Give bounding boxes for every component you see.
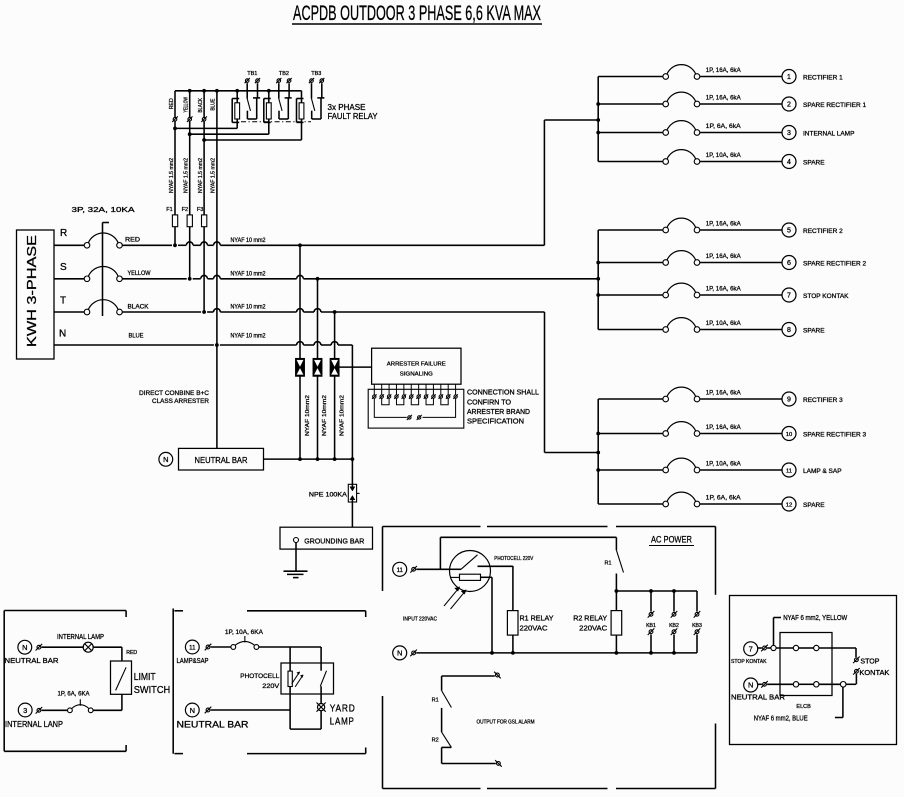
label NYAF 10 mm2 T xyxy=(231,305,267,311)
arrester failure signaling box xyxy=(372,348,461,384)
photocell arrows ac xyxy=(444,587,466,609)
wire relay top bus xyxy=(175,90,302,92)
node 11 ac power xyxy=(393,562,407,576)
svg-text:NEUTRAL BAR: NEUTRAL BAR xyxy=(5,656,60,665)
alarm output upper terminal xyxy=(442,672,501,679)
svg-text:NYAF 10mm2: NYAF 10mm2 xyxy=(339,395,345,436)
relay TB1 coil xyxy=(232,91,239,129)
svg-text:11: 11 xyxy=(189,646,196,652)
svg-text:1P, 10A, 6KA: 1P, 10A, 6KA xyxy=(225,630,263,636)
svg-text:SPARE: SPARE xyxy=(803,160,825,167)
svg-text:FAULT RELAY: FAULT RELAY xyxy=(328,112,379,121)
label NYAF 1.5 mm2 no1 xyxy=(169,158,175,193)
load label SPARE xyxy=(803,502,825,509)
wire NPE to grounding bar xyxy=(351,502,353,527)
signaling terminal strip xyxy=(368,384,464,428)
label DIRECT CONBINE B+C CLASS ARRESTER xyxy=(139,390,209,405)
NPE 100KA arrester xyxy=(309,484,360,502)
circuit tag 9 xyxy=(782,392,796,406)
svg-text:SWITCH: SWITCH xyxy=(134,685,171,696)
wire arrester1 drop xyxy=(299,245,301,459)
svg-text:6: 6 xyxy=(787,260,791,267)
terminal label T xyxy=(60,296,66,307)
svg-text:3: 3 xyxy=(23,706,27,715)
circuit tag 2 xyxy=(782,97,796,111)
breaker box1 1P 6A xyxy=(58,692,94,713)
svg-text:12: 12 xyxy=(786,503,792,509)
node N neutral xyxy=(159,452,173,466)
neutral bar box xyxy=(179,448,264,470)
svg-text:KB1: KB1 xyxy=(646,623,656,629)
svg-text:8: 8 xyxy=(787,327,791,334)
wire meter S to breaker xyxy=(54,278,84,280)
wire breaker to photocell box2 xyxy=(259,646,321,648)
load label RECTIFIER 2 xyxy=(803,228,843,235)
relay TB2 label xyxy=(279,71,289,77)
circuit tag 7 xyxy=(782,288,796,302)
node 3 internal lamp xyxy=(5,703,63,729)
relay TB3 label xyxy=(311,71,321,77)
svg-text:RECTIFIER 1: RECTIFIER 1 xyxy=(803,75,843,82)
svg-text:INTERNAL LANP: INTERNAL LANP xyxy=(5,720,63,729)
terminal box2 11 xyxy=(205,644,212,651)
svg-text:RECTIFIER 3: RECTIFIER 3 xyxy=(803,397,843,404)
svg-text:3x PHASE: 3x PHASE xyxy=(328,103,366,112)
svg-text:R1: R1 xyxy=(604,561,611,567)
svg-text:NYAF 10mm2: NYAF 10mm2 xyxy=(305,395,311,436)
svg-text:NYAF 10 mm2: NYAF 10 mm2 xyxy=(231,305,267,311)
svg-text:STOP KONTAK: STOP KONTAK xyxy=(803,293,849,300)
svg-text:SPECIFICATION: SPECIFICATION xyxy=(467,418,524,425)
contact KB1 xyxy=(646,591,656,653)
terminal ac N xyxy=(410,650,417,657)
label BLUE xyxy=(129,334,144,340)
terminal ac 11 xyxy=(410,566,417,573)
label 3x PHASE FAULT RELAY xyxy=(328,103,379,121)
svg-text:F2: F2 xyxy=(182,207,188,213)
svg-text:RED: RED xyxy=(169,98,175,109)
wire R feed to group1 xyxy=(544,120,598,245)
wire meter T to breaker xyxy=(54,311,84,313)
arrester x317.5 xyxy=(313,359,322,377)
label RED xyxy=(125,238,141,244)
svg-text:BLACK: BLACK xyxy=(128,304,149,310)
svg-text:ARRESTER FAILURE: ARRESTER FAILURE xyxy=(387,361,446,367)
svg-text:ARRESTER BRAND: ARRESTER BRAND xyxy=(467,409,530,416)
svg-text:10: 10 xyxy=(786,432,792,438)
svg-text:KONTAK: KONTAK xyxy=(859,670,889,677)
svg-text:YELLOW: YELLOW xyxy=(183,96,189,112)
load label SPARE RECTIFIER 2 xyxy=(803,261,866,268)
svg-text:KB2: KB2 xyxy=(669,623,679,629)
breaker 3P pole R xyxy=(84,233,122,248)
terminal elcb N xyxy=(758,681,768,688)
svg-text:YARD: YARD xyxy=(330,704,356,715)
detail box ELCB frame xyxy=(730,596,897,745)
contact KB2 xyxy=(669,591,679,653)
circuit tag 4 xyxy=(782,155,796,169)
breaker row 9 (RECTIFIER 3) xyxy=(598,387,782,402)
svg-text:1P, 16A, 6kA: 1P, 16A, 6kA xyxy=(706,286,742,293)
svg-text:SPARE RECTIFIER 2: SPARE RECTIFIER 2 xyxy=(803,261,866,268)
svg-text:LIMIT: LIMIT xyxy=(134,672,156,683)
relay TB1 label xyxy=(247,71,257,77)
load label SPARE RECTIFIER 1 xyxy=(803,102,866,109)
load label SPARE xyxy=(803,328,825,335)
svg-text:3P, 32A, 10KA: 3P, 32A, 10KA xyxy=(72,207,135,214)
label NYAF 1.5 mm2 no3 xyxy=(198,158,204,193)
fuse F1 xyxy=(166,207,177,227)
circuit tag 5 xyxy=(782,223,796,237)
label OUTPUT FOR GSL ALARM xyxy=(477,719,535,725)
svg-text:KWH 3-PHASE: KWH 3-PHASE xyxy=(24,235,39,347)
wire elcb top xyxy=(767,645,856,657)
svg-text:1P, 16A, 6kA: 1P, 16A, 6kA xyxy=(706,253,742,260)
node N elcb xyxy=(731,678,786,701)
svg-text:NEUTRAL BAR: NEUTRAL BAR xyxy=(195,456,248,465)
node N neutral bar box2 xyxy=(177,703,250,729)
breaker row 8 (SPARE) xyxy=(598,318,782,333)
svg-text:NYAF 10mm2: NYAF 10mm2 xyxy=(322,395,328,436)
svg-text:NYAF 1.5 mm2: NYAF 1.5 mm2 xyxy=(183,158,189,193)
svg-text:1: 1 xyxy=(787,74,791,81)
breaker row 7 (STOP KONTAK) xyxy=(598,283,782,298)
label ELCB xyxy=(796,704,811,710)
wire box2 N to photocell xyxy=(211,709,291,711)
svg-text:1P, 10A, 6kA: 1P, 10A, 6kA xyxy=(706,152,742,159)
breaker row 5 (RECTIFIER 2) xyxy=(598,218,782,233)
wire arrester2 drop xyxy=(317,279,319,459)
svg-text:LAMP & SAP: LAMP & SAP xyxy=(803,468,842,475)
label NYAF 10 mm2 R xyxy=(231,238,267,244)
svg-text:3: 3 xyxy=(787,130,791,137)
leader NYAF yellow xyxy=(774,615,848,645)
svg-text:NYAF 10 mm2: NYAF 10 mm2 xyxy=(231,334,267,340)
wire photocell top loop xyxy=(440,537,616,569)
label BLACK xyxy=(128,304,149,310)
breaker row 12 (SPARE) xyxy=(598,492,782,507)
relay TB3 contact xyxy=(312,83,325,119)
label CONNECTION SHALL CONFIRN TO ARRESTER BRAND SPECIFICATION xyxy=(467,390,539,426)
svg-text:STOP KONTAK: STOP KONTAK xyxy=(731,659,767,665)
svg-text:220VAC: 220VAC xyxy=(520,623,549,632)
svg-text:1P, 10A, 6kA: 1P, 10A, 6kA xyxy=(706,461,742,468)
node N neutral bar box1 xyxy=(5,640,60,665)
svg-text:NYAF 1.5 mm2: NYAF 1.5 mm2 xyxy=(210,158,216,193)
contact R1 alarm xyxy=(432,676,452,732)
svg-text:NEUTRAL BAR: NEUTRAL BAR xyxy=(731,692,786,701)
wire BLUE riser xyxy=(216,91,218,345)
svg-text:TB2: TB2 xyxy=(279,71,289,77)
bus group3 xyxy=(596,399,600,504)
svg-text:SPARE: SPARE xyxy=(803,328,825,335)
breaker 3P pole T xyxy=(84,300,122,315)
detail box yard lamp frame xyxy=(173,609,366,754)
relay TB1 terminals xyxy=(245,78,261,83)
stop kontak plug contacts xyxy=(853,657,890,685)
svg-text:5: 5 xyxy=(787,228,791,235)
junction T-arrester3 xyxy=(333,310,337,314)
wire N corner to NPE xyxy=(351,345,353,484)
ground symbol xyxy=(284,543,308,578)
label NYAF 10mm2 arr3 xyxy=(339,395,345,436)
wire limit switch to breaker box1 xyxy=(93,694,122,710)
wire phase T line xyxy=(122,309,544,312)
svg-text:GROUNDING BAR: GROUNDING BAR xyxy=(304,537,365,546)
svg-text:NPE 100KA: NPE 100KA xyxy=(309,491,348,498)
switch R1 ac xyxy=(604,537,623,591)
svg-text:CONNECTION SHALL: CONNECTION SHALL xyxy=(467,390,539,397)
svg-text:F3: F3 xyxy=(197,207,203,213)
junction top bus x216.9 xyxy=(215,89,219,93)
breaker row 1 (RECTIFIER 1) xyxy=(598,65,782,80)
node N ac power xyxy=(393,646,407,660)
breaker 3P tie bar xyxy=(103,223,110,317)
junction top bus x189.7 xyxy=(188,89,192,93)
alarm output lower terminal xyxy=(442,760,502,767)
load label SPARE RECTIFIER 3 xyxy=(803,432,866,439)
breaker row 10 (SPARE RECTIFIER 3) xyxy=(598,422,782,437)
svg-text:1P, 16A, 6kA: 1P, 16A, 6kA xyxy=(706,221,742,228)
wire YELLOW riser xyxy=(189,91,191,279)
svg-text:NYAF 10 mm2: NYAF 10 mm2 xyxy=(231,238,267,244)
svg-text:2: 2 xyxy=(787,102,791,109)
relay TB2 coil xyxy=(264,91,271,134)
terminal BLACK xyxy=(201,116,207,122)
wire LDR to neutral ac xyxy=(480,577,492,653)
svg-text:PHOTOCELL 220V: PHOTOCELL 220V xyxy=(494,556,533,562)
limit switch xyxy=(111,661,171,696)
junction top bus x237.2 xyxy=(235,89,239,93)
svg-text:7: 7 xyxy=(787,293,791,300)
wire RED riser xyxy=(174,91,176,246)
label NYAF 1.5 mm2 no4 xyxy=(210,158,216,193)
junction T-F3 xyxy=(202,310,206,314)
svg-text:1P, 6A, 6kA: 1P, 6A, 6kA xyxy=(706,495,742,502)
svg-text:1P, 10A, 6kA: 1P, 10A, 6kA xyxy=(706,320,742,327)
svg-text:YELLOW: YELLOW xyxy=(128,271,151,277)
wire photocell bottom loop xyxy=(290,687,321,730)
svg-text:NEUTRAL BAR: NEUTRAL BAR xyxy=(177,719,250,729)
arrester x334.6 xyxy=(330,359,339,377)
svg-text:1P, 16A, 6kA: 1P, 16A, 6kA xyxy=(706,95,742,102)
svg-text:OUTPUT FOR GSL ALARM: OUTPUT FOR GSL ALARM xyxy=(477,719,535,725)
svg-text:NYAF 10 mm2: NYAF 10 mm2 xyxy=(231,271,267,277)
svg-text:R: R xyxy=(60,228,67,239)
load label INTERNAL LAMP xyxy=(803,131,854,138)
terminal YELLOW xyxy=(187,116,193,122)
svg-text:BLACK: BLACK xyxy=(198,98,204,113)
load label STOP KONTAK xyxy=(803,293,849,300)
circuit tag 6 xyxy=(782,256,796,270)
svg-text:S: S xyxy=(60,262,67,273)
wire TB2 coil feed xyxy=(188,132,269,136)
svg-text:4: 4 xyxy=(787,159,791,166)
photocell box2 xyxy=(240,663,333,694)
wire neutral bus ac xyxy=(416,651,697,655)
svg-text:9: 9 xyxy=(787,397,791,404)
wire 11 to photocell xyxy=(416,568,449,570)
photocell LDR box2 xyxy=(288,647,303,687)
wire arrester3 drop xyxy=(334,312,336,459)
junction R-arrester1 xyxy=(298,243,302,247)
wire TB3 coil feed xyxy=(202,138,301,142)
svg-text:1P, 6A, 6kA: 1P, 6A, 6kA xyxy=(706,123,742,130)
breaker box2 1P 10A xyxy=(225,630,263,650)
svg-text:SIGNALING: SIGNALING xyxy=(400,371,434,377)
svg-text:DIRECT CONBINE B+C: DIRECT CONBINE B+C xyxy=(139,390,209,397)
svg-text:CLASS ARRESTER: CLASS ARRESTER xyxy=(152,398,209,405)
svg-text:11: 11 xyxy=(786,469,792,475)
svg-text:SPARE RECTIFIER 1: SPARE RECTIFIER 1 xyxy=(803,102,866,109)
terminal box1 tag3 xyxy=(36,707,43,714)
label 3P, 32A, 10KA xyxy=(72,207,135,214)
svg-text:AC POWER: AC POWER xyxy=(651,535,692,545)
label YELLOW vertical xyxy=(183,96,189,112)
junction N-blue drop xyxy=(215,343,219,347)
junction top bus x204.1 xyxy=(202,89,206,93)
svg-text:NYAF 6 mm2, YELLOW: NYAF 6 mm2, YELLOW xyxy=(783,615,847,622)
wire phase S line xyxy=(122,275,598,278)
wire box1 N to lamp xyxy=(42,646,84,648)
svg-text:1P, 16A, 6kA: 1P, 16A, 6kA xyxy=(706,424,742,431)
wire neutral N line xyxy=(54,342,352,345)
relay TB1 contact xyxy=(247,83,260,119)
load label RECTIFIER 3 xyxy=(803,397,843,404)
arrester x300 xyxy=(296,359,305,377)
relay TB3 coil xyxy=(297,91,304,140)
svg-text:R2: R2 xyxy=(432,737,439,743)
svg-text:T: T xyxy=(60,296,66,307)
svg-text:11: 11 xyxy=(397,568,404,574)
wire box1 tag3 to breaker xyxy=(42,709,68,711)
svg-text:7: 7 xyxy=(749,645,753,654)
bus group1 xyxy=(596,77,600,162)
grounding bar box xyxy=(280,527,373,549)
svg-text:NYAF 6 mm2, BLUE: NYAF 6 mm2, BLUE xyxy=(754,716,808,723)
label RED vertical xyxy=(169,98,175,109)
terminal box1 N xyxy=(36,644,43,651)
circuit tag 10 xyxy=(782,427,796,441)
node 11 lamp&sap xyxy=(177,640,209,665)
svg-text:BLUE: BLUE xyxy=(210,98,216,110)
relay R1 coil xyxy=(507,566,553,653)
ELCB inner box xyxy=(780,633,832,696)
svg-text:STOP: STOP xyxy=(860,658,879,665)
wire BLACK riser xyxy=(203,91,205,312)
relay TB3 terminals xyxy=(309,78,325,83)
photocell switch box2 xyxy=(320,647,326,686)
breaker row 2 (SPARE RECTIFIER 1) xyxy=(598,92,782,107)
terminal label S xyxy=(60,262,67,273)
svg-text:N: N xyxy=(397,649,402,658)
svg-text:1P, 16A, 6kA: 1P, 16A, 6kA xyxy=(706,67,742,74)
load label RECTIFIER 1 xyxy=(803,75,843,82)
svg-text:N: N xyxy=(59,329,66,340)
fuse F3 xyxy=(197,207,207,227)
load label SPARE xyxy=(803,160,825,167)
title ACPDB OUTDOOR 3 PHASE 6,6 KVA MAX xyxy=(292,2,542,25)
svg-text:N: N xyxy=(748,681,753,690)
junction top bus x268.8 xyxy=(267,89,271,93)
wire elcb bottom xyxy=(767,682,856,688)
svg-text:NYAF 1.5 mm2: NYAF 1.5 mm2 xyxy=(198,158,204,193)
kwh meter KWH 3-PHASE xyxy=(17,230,55,359)
wire box2 11 to breaker xyxy=(211,646,231,648)
svg-text:LAMP: LAMP xyxy=(330,717,355,728)
svg-text:F1: F1 xyxy=(166,207,172,213)
photocell ac power xyxy=(450,551,534,592)
wire meter R to breaker xyxy=(54,244,84,246)
breaker 3P pole S xyxy=(84,266,122,281)
svg-text:INTERNAL LAMP: INTERNAL LAMP xyxy=(57,632,104,641)
mechanical link dashed xyxy=(241,121,311,123)
svg-text:TB3: TB3 xyxy=(311,71,321,77)
svg-text:1P, 16A, 6kA: 1P, 16A, 6kA xyxy=(706,390,742,397)
label BLACK vertical xyxy=(198,98,204,113)
breaker row 4 (SPARE) xyxy=(598,150,782,165)
circuit tag 11 xyxy=(782,463,796,477)
relay TB2 contact xyxy=(279,83,292,119)
fuse F2 xyxy=(182,207,193,227)
relay TB2 terminals xyxy=(276,78,292,83)
svg-text:KB3: KB3 xyxy=(692,623,702,629)
terminal elcb 7 xyxy=(758,645,768,652)
label BLUE vertical xyxy=(210,98,216,110)
wire blue drop to neutral bar xyxy=(216,345,218,448)
circuit tag 8 xyxy=(782,323,796,337)
svg-text:R2 RELAY: R2 RELAY xyxy=(573,613,607,622)
svg-text:PHOTOCELL: PHOTOCELL xyxy=(240,673,279,680)
wire S feed junction xyxy=(596,277,600,281)
terminal label N xyxy=(59,329,66,340)
breaker row 11 (LAMP & SAP) xyxy=(598,458,782,473)
wire lamp to limit switch xyxy=(93,647,137,661)
svg-text:1P, 6A, 6KA: 1P, 6A, 6KA xyxy=(58,692,90,698)
svg-text:INPUT 220VAC: INPUT 220VAC xyxy=(403,617,437,623)
svg-text:SPARE: SPARE xyxy=(803,502,825,509)
svg-text:R1: R1 xyxy=(432,697,439,703)
leader NYAF blue xyxy=(754,687,843,723)
breaker row 6 (SPARE RECTIFIER 2) xyxy=(598,251,782,266)
junction S-arrester2 xyxy=(316,277,320,281)
svg-text:N: N xyxy=(190,706,195,715)
terminal RED xyxy=(172,116,178,122)
label NYAF 10mm2 arr2 xyxy=(322,395,328,436)
contact R2 alarm xyxy=(432,732,452,763)
label AC POWER xyxy=(649,535,694,546)
svg-text:LAMP&SAP: LAMP&SAP xyxy=(177,658,209,665)
wire phase R line xyxy=(122,242,544,245)
wire neutral bar to ground riser xyxy=(264,457,355,461)
terminal box2 N xyxy=(205,707,212,714)
wire T feed to group3 xyxy=(545,312,599,453)
svg-text:NYAF 1.5 mm2: NYAF 1.5 mm2 xyxy=(169,158,175,193)
svg-text:ELCB: ELCB xyxy=(796,704,811,710)
svg-text:R1 RELAY: R1 RELAY xyxy=(520,613,554,622)
wire TB1 coil feed xyxy=(173,126,237,130)
label NYAF 10 mm2 S xyxy=(231,271,267,277)
svg-text:RECTIFIER 2: RECTIFIER 2 xyxy=(803,228,843,235)
contact KB3 xyxy=(692,591,702,653)
svg-text:ACPDB OUTDOOR 3 PHASE 6,6 KVA: ACPDB OUTDOOR 3 PHASE 6,6 KVA MAX xyxy=(293,2,541,25)
svg-text:220V: 220V xyxy=(262,683,280,690)
svg-text:SPARE RECTIFIER 3: SPARE RECTIFIER 3 xyxy=(803,432,866,439)
breaker row 3 (INTERNAL LAMP) xyxy=(598,121,782,136)
bus group2 xyxy=(596,230,600,330)
svg-text:RED: RED xyxy=(125,238,141,244)
load label LAMP & SAP xyxy=(803,468,842,475)
